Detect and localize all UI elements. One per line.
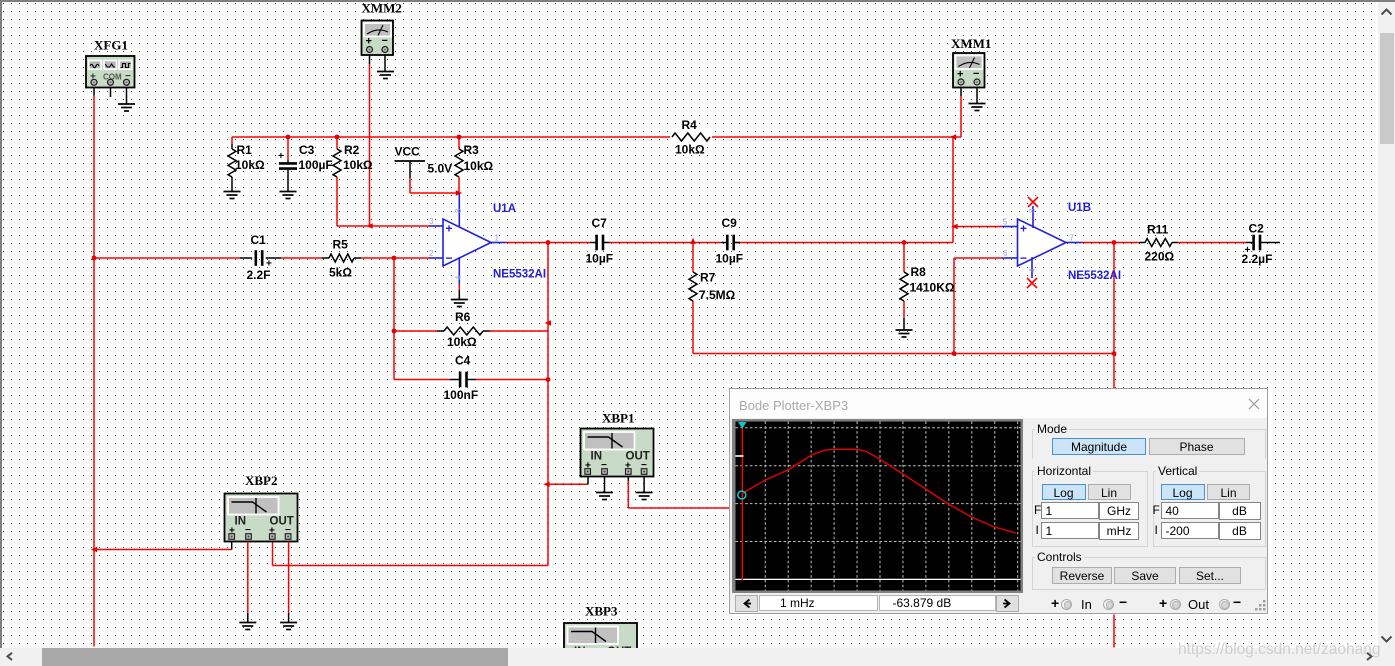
wire R6 left y=331 — [394, 330, 437, 332]
ground XBP2 OUT- — [280, 623, 297, 630]
wire C4 right y=379.5 — [476, 379, 548, 381]
label F horizontal — [1034, 503, 1041, 517]
svg-text:7: 7 — [1070, 234, 1075, 243]
svg-text:NE5532AI: NE5532AI — [493, 269, 546, 281]
wire XMM2+ vertical x=369.5 — [369, 64, 371, 226]
svg-text:R7: R7 — [700, 271, 716, 285]
svg-text:C4: C4 — [455, 354, 471, 368]
label XBP2 — [245, 473, 278, 488]
readout left arrow button — [735, 595, 758, 612]
node junction (1114,242.5) — [1112, 240, 1117, 245]
label R1 — [237, 143, 253, 157]
pin number U1A 3 — [429, 217, 434, 226]
value C4 100nF — [444, 388, 479, 402]
svg-text:+: + — [446, 222, 453, 236]
ground XBP2 IN- — [239, 623, 256, 630]
scrollbar up arrow — [1380, 6, 1393, 19]
svg-text:C7: C7 — [592, 216, 608, 230]
value R8 1410K&#937; — [910, 281, 955, 295]
readout row — [734, 594, 1024, 612]
label VCC — [395, 145, 421, 159]
button Horizontal Lin — [1088, 484, 1131, 500]
node junction arrow (547.5,323) — [545, 320, 551, 325]
svg-text:R1: R1 — [237, 143, 253, 157]
node junction (94,258) — [92, 256, 97, 261]
bode plot cursor marker triangle — [738, 422, 747, 429]
wire y=549.5 to XBP2 IN+ — [94, 549, 232, 551]
svg-text:2.2F: 2.2F — [247, 268, 271, 282]
pin number U1B 8 — [1028, 208, 1037, 213]
wire XBP1 OUT+ drop — [627, 477, 629, 509]
wire U1A pin3 y=226 — [337, 225, 429, 227]
wire x=1114 vertical upper — [1113, 243, 1115, 389]
wire XMM1+ pin stub — [960, 87, 962, 96]
capacitor C9 — [721, 235, 740, 251]
resistor R2 — [333, 137, 341, 177]
label R7 — [700, 271, 716, 285]
node junction (1114,353.5) — [1112, 351, 1117, 356]
no-connect X U1B pin8 — [1028, 197, 1038, 207]
pin number U1B 4 — [1028, 268, 1037, 273]
wire XBP1 IN+ stub — [587, 477, 589, 485]
ground C3 — [280, 192, 297, 199]
button Magnitude (selected) — [1052, 438, 1146, 455]
bode plot display — [732, 419, 1023, 593]
svg-text:R6: R6 — [455, 310, 471, 324]
svg-text:8: 8 — [1028, 208, 1037, 213]
wire R7 top x=693 — [692, 243, 694, 273]
value VCC 5.0V — [428, 162, 453, 176]
bode plot response curve — [742, 449, 1016, 533]
label XMM2 — [362, 1, 402, 16]
svg-text:R5: R5 — [333, 238, 349, 252]
instrument XBP3 — [564, 623, 637, 658]
svg-text:XMM2: XMM2 — [362, 1, 402, 16]
label C4 — [455, 354, 471, 368]
label XBP3 — [585, 604, 618, 619]
wire bottom rail y=353.5 — [693, 353, 1114, 355]
label C1 — [251, 233, 267, 247]
pin number U1B 6 — [1003, 249, 1008, 258]
readout right arrow button — [996, 595, 1019, 612]
radio In - — [1103, 599, 1114, 610]
value R1 10k&#937; — [235, 158, 265, 172]
radio Out - — [1219, 599, 1230, 610]
wire R6 right y=331 — [490, 330, 548, 332]
bode plot axis tick — [736, 455, 744, 457]
scrollbar right arrow — [1363, 652, 1375, 661]
svg-text:XBP2: XBP2 — [245, 473, 278, 488]
node junction (394,331) — [392, 329, 397, 334]
wire XBP1 IN- stub — [604, 477, 606, 493]
radio In + — [1061, 599, 1072, 610]
value C9 10uF — [716, 252, 744, 266]
wire XMM2+ pin stub — [369, 55, 371, 64]
svg-text:100nF: 100nF — [444, 388, 479, 402]
wire y=565.5 to XBP2 OUT+ — [273, 565, 549, 567]
wire XFG1 minus — [126, 88, 128, 105]
node junction arrow (953,137) — [950, 134, 956, 139]
svg-text:−: − — [446, 251, 453, 265]
op-amp U1B — [1002, 206, 1082, 278]
svg-text:U1A: U1A — [493, 203, 516, 215]
value C7 10uF — [586, 252, 614, 266]
field F vertical value 40 — [1161, 502, 1219, 520]
bode plot grid — [736, 422, 1021, 591]
capacitor C2 — [1245, 235, 1264, 256]
svg-text:10µF: 10µF — [716, 252, 744, 266]
instrument XBP2 — [225, 494, 298, 542]
horizontal scrollbar — [0, 648, 1378, 666]
op-amp U1A — [429, 194, 506, 284]
button Phase — [1149, 438, 1245, 455]
button Set... — [1179, 567, 1241, 584]
label I horizontal — [1036, 523, 1039, 537]
wire U1B output y=242.5 — [1082, 242, 1139, 244]
wire XMM1+ vertical x=961 — [960, 96, 962, 137]
wire C7-C9 y=242.5 — [610, 242, 722, 244]
label U1A NE5532AI — [493, 269, 546, 281]
label U1B NE5532AI — [1068, 270, 1121, 282]
label R4 — [682, 118, 698, 132]
svg-text:−: − — [382, 35, 388, 47]
svg-text:1: 1 — [495, 234, 500, 243]
svg-text:3: 3 — [429, 217, 434, 226]
unit box mHz — [1099, 522, 1139, 541]
svg-text:R11: R11 — [1147, 223, 1169, 237]
scrollbar down arrow — [1380, 633, 1393, 646]
field I horizontal value 1 — [1041, 522, 1099, 540]
svg-text:XMM1: XMM1 — [951, 36, 991, 51]
pin number U1A 4 — [454, 275, 463, 280]
svg-text:10kΩ: 10kΩ — [343, 158, 373, 172]
wire R2 bottom x=337 — [336, 177, 338, 226]
wire U1B pin6 vertical x=954 — [953, 258, 955, 354]
svg-text:−: − — [1020, 251, 1027, 265]
node junction (954,353.5) — [952, 351, 957, 356]
button Vertical Log (selected) — [1161, 484, 1205, 500]
button Horizontal Log (selected) — [1042, 484, 1086, 500]
wire feedback vertical x=394 — [393, 258, 395, 380]
node junction arrow (369.5,226) — [366, 223, 372, 228]
group Controls — [1032, 557, 1266, 590]
wire XBP2 IN+ stub — [231, 542, 233, 550]
resistor R1 — [228, 137, 236, 192]
instrument XMM1 — [953, 53, 985, 88]
value R7 7.5M&#937; — [699, 288, 736, 302]
resistor R11 — [1139, 239, 1178, 247]
label XMM1 — [951, 36, 991, 51]
svg-text:7.5MΩ: 7.5MΩ — [699, 288, 736, 302]
svg-text:10kΩ: 10kΩ — [235, 158, 265, 172]
label XFG1 — [94, 38, 128, 53]
label R8 — [911, 265, 927, 279]
wire R8 ground stub — [903, 318, 905, 330]
wire XBP2 IN- drop — [247, 542, 249, 623]
svg-text:+: + — [1020, 222, 1027, 236]
node junction arrow (459,193) — [456, 190, 462, 195]
label R6 — [455, 310, 471, 324]
svg-text:C1: C1 — [251, 233, 267, 247]
button Vertical Lin — [1207, 484, 1250, 500]
wire input line y=258 seg1 — [94, 257, 240, 259]
wire x=953 vertical rail-to-signal — [952, 137, 954, 243]
unit box GHz — [1099, 502, 1139, 521]
label U1B — [1068, 202, 1091, 214]
button Save — [1114, 567, 1176, 584]
wire junction arrow (94,549.5) — [91, 547, 97, 552]
field I vertical value -200 — [1161, 522, 1219, 540]
pin number U1B 7 — [1070, 234, 1075, 243]
value R6 10k&#937; — [447, 335, 477, 349]
wire U1B pin6 horizontal y=258 — [954, 257, 1002, 259]
node junction (548,379.5) — [546, 377, 551, 382]
node junction arrow (693,242.5) — [690, 238, 695, 244]
svg-text:C3: C3 — [299, 143, 315, 157]
label C2 — [1249, 222, 1265, 236]
svg-text:R4: R4 — [682, 118, 698, 132]
wire XBP1 OUT- stub — [643, 477, 645, 493]
label C7 — [592, 216, 608, 230]
svg-text:NE5532AI: NE5532AI — [1068, 270, 1121, 282]
resistor R4 — [670, 131, 712, 143]
svg-text:10kΩ: 10kΩ — [464, 159, 494, 173]
terminals row In/Out — [1051, 595, 1059, 611]
instrument XFG1 — [86, 56, 135, 88]
value R11 220&#937; — [1145, 250, 1175, 264]
svg-text:6: 6 — [1003, 249, 1008, 258]
bode plot cursor line — [741, 422, 743, 581]
wire XBP1 OUT+ to dialog y=508 — [628, 507, 730, 509]
button Reverse — [1052, 567, 1112, 584]
svg-text:10kΩ: 10kΩ — [675, 143, 705, 157]
wire R8 top x=904 — [903, 243, 905, 273]
ground XBP1 IN- — [596, 493, 613, 500]
group Vertical — [1153, 471, 1266, 547]
svg-text:XFG1: XFG1 — [94, 38, 128, 53]
wire junction arrow (548,484.3) — [543, 482, 549, 487]
capacitor C7 — [590, 235, 610, 251]
svg-text:R2: R2 — [344, 143, 360, 157]
value R3 10k&#937; — [464, 159, 494, 173]
svg-text:5kΩ: 5kΩ — [329, 266, 352, 280]
value C3 100uF — [299, 158, 333, 172]
svg-text:+: + — [366, 36, 372, 48]
readout value field -63.879 dB — [879, 595, 996, 611]
wire C1-R5 y=258 — [281, 257, 322, 259]
node junction (904,242.5) — [902, 240, 907, 245]
resistor R3 — [455, 137, 463, 193]
bode plot cursor circle marker — [738, 491, 746, 499]
dialog resize grip — [1255, 600, 1267, 612]
dialog close button — [1247, 397, 1261, 411]
power VCC symbol — [395, 161, 460, 193]
capacitor C3 — [278, 137, 297, 192]
pin number U1B 5 — [1003, 218, 1008, 227]
node junction (394,258) — [392, 256, 397, 261]
instrument XBP1 — [581, 429, 654, 477]
node junction (288,137) — [286, 135, 291, 140]
node junction (548,242.5) — [546, 240, 551, 245]
resistor R8 — [900, 272, 908, 301]
wire XBP2 OUT+ drop — [272, 542, 274, 566]
pin number U1A 2 — [429, 249, 434, 258]
ground U1A pin4 — [451, 300, 468, 307]
ground XBP1 OUT- — [636, 493, 653, 500]
svg-text:4: 4 — [1028, 268, 1037, 273]
svg-text:5.0V: 5.0V — [428, 162, 453, 176]
resistor R5 — [322, 254, 361, 262]
instrument XMM2 — [362, 21, 394, 56]
svg-text:R3: R3 — [464, 143, 480, 157]
value R2 10k&#937; — [343, 158, 373, 172]
node junction (459,137) — [457, 135, 462, 140]
wire XMM1 minus — [976, 88, 978, 104]
capacitor C1 — [240, 250, 281, 269]
no-connect X U1B pin4 — [1027, 278, 1037, 288]
wire U1A output y=242.5 — [506, 242, 590, 244]
dialog title bar — [730, 389, 1267, 418]
ground R1 — [224, 192, 241, 199]
capacitor C4 — [450, 372, 476, 388]
wire XMM2 minus — [384, 55, 386, 72]
svg-text:220Ω: 220Ω — [1145, 250, 1175, 264]
label R5 — [333, 238, 349, 252]
svg-text:2.2µF: 2.2µF — [1242, 252, 1273, 266]
label F vertical — [1153, 503, 1160, 517]
wire R7 bottom x=693 — [692, 301, 694, 354]
dialog window Bode Plotter-XBP3 — [729, 388, 1268, 614]
wire XFG1+ pin stub — [93, 86, 95, 96]
wire x=1114 vertical lower — [1113, 615, 1115, 648]
label R2 — [344, 143, 360, 157]
value R4 10k&#937; — [675, 143, 705, 157]
group Mode — [1032, 429, 1266, 459]
label I vertical — [1155, 523, 1158, 537]
svg-text:C2: C2 — [1249, 222, 1265, 236]
svg-text:10µF: 10µF — [586, 252, 614, 266]
svg-text:XBP3: XBP3 — [585, 604, 618, 619]
pin number U1A 1 — [495, 234, 500, 243]
value C1 2.2F — [247, 268, 271, 282]
svg-text:4: 4 — [454, 275, 463, 280]
label C9 — [722, 216, 738, 230]
wire R5-junction y=258 — [361, 257, 429, 259]
label XBP1 — [602, 411, 635, 426]
svg-text:100µF: 100µF — [299, 158, 333, 172]
svg-text:−: − — [973, 68, 979, 80]
readout frequency field 1 mHz — [759, 595, 878, 611]
wire XBP1 IN+ horizontal y=484.3 — [548, 483, 588, 485]
radio Out + — [1170, 599, 1181, 610]
label U1A — [493, 203, 516, 215]
svg-text:C9: C9 — [722, 216, 738, 230]
scrollbar thumb — [42, 648, 508, 666]
label C3 — [299, 143, 315, 157]
value C2 2.2uF — [1242, 252, 1273, 266]
unit box dB F — [1219, 502, 1261, 521]
svg-text:VCC: VCC — [395, 145, 421, 159]
svg-text:U1B: U1B — [1068, 202, 1091, 214]
svg-text:5: 5 — [1003, 218, 1008, 227]
wire XBP2 OUT- drop — [288, 542, 290, 623]
ground XMM2 — [377, 72, 394, 79]
field F horizontal value 1 — [1041, 502, 1099, 520]
group Horizontal — [1032, 471, 1148, 547]
wire top rail net VCCrail y=137 — [232, 136, 961, 138]
scrollbar left arrow — [4, 652, 16, 661]
wire U1B pin5 horizontal y=226.5 — [953, 226, 1002, 228]
svg-text:XBP1: XBP1 — [602, 411, 635, 426]
label R11 — [1147, 223, 1169, 237]
watermark — [1178, 641, 1381, 659]
wire U1A out vertical x=548 — [547, 243, 549, 566]
unit box dB I — [1219, 522, 1261, 541]
resistor R6 — [437, 327, 490, 335]
wire R8 bottom x=904 — [903, 301, 905, 318]
svg-text:8: 8 — [454, 208, 463, 213]
svg-text:10kΩ: 10kΩ — [447, 335, 477, 349]
wire U1A pin4 lower — [458, 284, 460, 300]
wire after C2 — [1264, 242, 1281, 244]
ground R8 — [896, 330, 913, 337]
wire C9 right y=242.5 — [734, 242, 953, 244]
node junction arrow (953,226.5) — [951, 224, 957, 229]
scrollbar v-thumb — [1380, 33, 1394, 144]
wire R11-C2 y=242.5 — [1178, 242, 1246, 244]
ground XMM1 — [969, 104, 986, 111]
pin number U1A 8 — [454, 208, 463, 213]
resistor R7 — [689, 272, 697, 301]
node junction (337,137) — [335, 135, 340, 140]
vertical scrollbar — [1378, 2, 1395, 666]
svg-text:1410KΩ: 1410KΩ — [910, 281, 955, 295]
svg-text:R8: R8 — [911, 265, 927, 279]
wire XFG1 COM stub — [110, 88, 112, 98]
svg-text:2: 2 — [429, 249, 434, 258]
ground XFG1 — [118, 104, 135, 111]
wire XFG1+ vertical x=94 — [93, 96, 95, 647]
wire C4 left y=379.5 — [394, 379, 450, 381]
value R5 5k&#937; — [329, 266, 352, 280]
label R3 — [464, 143, 480, 157]
svg-text:+: + — [278, 151, 284, 162]
